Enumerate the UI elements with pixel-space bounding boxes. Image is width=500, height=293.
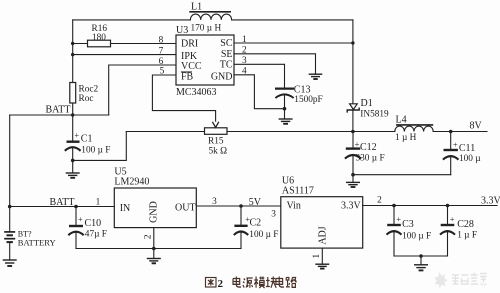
svg-text:C28: C28 [457, 219, 474, 230]
node junction IPK line [71, 53, 74, 56]
svg-text:IN5819: IN5819 [360, 109, 389, 119]
模 [254, 277, 265, 289]
svg-text:2: 2 [218, 278, 224, 290]
node BATT [46, 105, 75, 117]
ground below battery [3, 260, 17, 266]
svg-text:100 µ F: 100 µ F [249, 230, 278, 240]
node junction output ground [419, 254, 423, 258]
diode D1 IN5819 [347, 20, 389, 132]
svg-text:R15: R15 [208, 137, 224, 147]
svg-text:Roc2: Roc2 [79, 85, 99, 95]
node junction D1 bottom [351, 130, 355, 134]
svg-text:GND: GND [149, 201, 160, 223]
svg-text:ADJ: ADJ [317, 226, 328, 244]
inductor L4 [395, 115, 433, 143]
wire rail L4 to 8V [433, 131, 487, 133]
wire ground bus C10 to C2 [76, 248, 241, 250]
wire C12 to C11 bottom [353, 174, 451, 176]
capacitor C28 [440, 204, 477, 256]
op-amp U6 AS1117 [281, 176, 363, 249]
ground below U6 [315, 264, 329, 268]
svg-text:1 µ H: 1 µ H [395, 133, 417, 143]
svg-text:D1: D1 [361, 98, 373, 109]
路 [286, 278, 297, 288]
svg-text:C10: C10 [85, 218, 102, 229]
svg-text:AS1117: AS1117 [282, 186, 314, 197]
wire pin3 TC to C13 [234, 64, 285, 87]
ground below C1 [66, 173, 80, 178]
wire pin4 GND bend to C13 bottom [234, 75, 285, 109]
wire pin6 VCC to BATT [109, 65, 176, 115]
svg-text:47µ F: 47µ F [85, 230, 107, 240]
capacitor C2 [234, 204, 279, 248]
svg-text:5k Ω: 5k Ω [209, 147, 228, 157]
svg-text:FB: FB [181, 71, 194, 82]
svg-text:C12: C12 [360, 142, 377, 153]
wire rail R15 to L4 [227, 131, 395, 133]
svg-text:+: + [450, 214, 455, 224]
svg-text:U3: U3 [176, 25, 188, 36]
svg-text:3.3V: 3.3V [481, 196, 500, 207]
capacitor C11 [443, 132, 481, 175]
ground SE [309, 74, 323, 79]
svg-text:+: + [78, 214, 83, 224]
电 [276, 277, 284, 288]
wire U6 out 3.3V rail [363, 205, 498, 207]
svg-text:+: + [74, 130, 79, 140]
ground below U5 [147, 259, 161, 264]
node junction GND bus [152, 247, 156, 251]
svg-text:+: + [396, 214, 401, 224]
svg-text:MC34063: MC34063 [176, 87, 217, 98]
battery BT? [4, 115, 55, 260]
wire BATT to LM2940 [10, 206, 115, 208]
svg-text:C2: C2 [250, 217, 262, 228]
svg-text:170 µ H: 170 µ H [191, 24, 222, 34]
capacitor C1 [65, 130, 111, 173]
node junction battery branch [8, 205, 12, 209]
svg-text:IPK: IPK [181, 51, 198, 62]
wire U6 ADJ pin [321, 248, 323, 264]
svg-text:5V: 5V [249, 197, 262, 208]
watermark [434, 272, 487, 289]
wire rail bend down to C1 bottom [73, 132, 127, 161]
svg-text:GND: GND [211, 71, 233, 82]
svg-text:7: 7 [159, 46, 164, 56]
svg-text:C13: C13 [294, 84, 311, 95]
svg-text:C11: C11 [459, 143, 475, 154]
wire pin5 FB to R15 wiper [152, 75, 215, 122]
wire output rail left section to R15 [126, 131, 204, 133]
wire C3 to C28 bottom [394, 255, 448, 257]
svg-text:OUT: OUT [175, 203, 196, 214]
wire left vertical input [72, 20, 74, 141]
svg-text:TC: TC [220, 60, 233, 71]
svg-text:1: 1 [312, 254, 322, 259]
svg-text:100 µ F: 100 µ F [81, 146, 110, 156]
wire top rail from left vertical to L1 [73, 19, 191, 21]
node junction R16 line [71, 42, 74, 45]
图 [206, 278, 217, 288]
wire pin7 IPK [73, 54, 176, 56]
svg-text:1500pF: 1500pF [294, 95, 322, 105]
电 [233, 277, 241, 288]
capacitor C10 [68, 205, 107, 249]
op-amp U5 LM2940 [114, 167, 196, 228]
node junction C13 bottom [283, 107, 287, 111]
svg-text:BATT: BATT [50, 197, 75, 208]
svg-text:2: 2 [377, 196, 382, 206]
capacitor C3 [387, 204, 432, 256]
ground below C3/C28 [414, 256, 428, 270]
svg-text:SE: SE [221, 49, 233, 60]
node junction pin1/D1 [351, 41, 354, 44]
svg-text:SC: SC [220, 38, 233, 49]
svg-text:IN: IN [120, 203, 131, 214]
源 [243, 278, 253, 288]
svg-text:L1: L1 [191, 2, 202, 13]
svg-text:100 µ: 100 µ [459, 154, 481, 164]
caption 图2 电源模块电路 [206, 277, 297, 291]
svg-text:DRI: DRI [181, 39, 198, 50]
capacitor C13 [275, 84, 323, 119]
potentiometer R15 [205, 122, 228, 157]
resistor R16 [73, 24, 176, 47]
svg-text:6: 6 [159, 57, 164, 67]
resistor Roc2 [70, 83, 99, 105]
svg-text:2: 2 [144, 234, 154, 239]
svg-text:BATTERY: BATTERY [18, 238, 56, 248]
svg-text:BATT: BATT [46, 105, 71, 116]
svg-text:+: + [453, 140, 458, 150]
svg-text:8V: 8V [470, 121, 483, 132]
svg-text:C3: C3 [402, 219, 414, 230]
capacitor C12 [345, 131, 385, 182]
wire top rail from L1 to D1 branch [232, 19, 353, 21]
ground below C13 [279, 119, 293, 124]
svg-text:LM2940: LM2940 [114, 177, 149, 188]
svg-text:1: 1 [96, 197, 101, 207]
ground below C12 [346, 182, 360, 187]
svg-text:3: 3 [271, 210, 276, 220]
node junction C12 bottom [351, 173, 355, 177]
svg-text:3.3V: 3.3V [341, 201, 362, 212]
wire U5 OUT to U6 Vin [196, 205, 280, 207]
wire pin1 SC to D1 [234, 42, 353, 44]
块 [266, 277, 276, 288]
inductor L1 [189, 2, 231, 34]
svg-text:100 µ F: 100 µ F [402, 231, 431, 241]
svg-text:Vin: Vin [287, 201, 301, 212]
svg-text:C1: C1 [81, 133, 93, 144]
svg-text:3: 3 [212, 197, 217, 207]
svg-text:8: 8 [159, 35, 164, 45]
svg-text:L4: L4 [396, 115, 407, 126]
svg-text:1 µ F: 1 µ F [457, 231, 477, 241]
wire BATT horizontal [10, 114, 109, 116]
wire pin2 SE to ground [234, 54, 316, 74]
svg-text:5: 5 [160, 67, 165, 77]
node junction L4/C11 [449, 130, 453, 134]
op-amp U3 MC34063 [176, 25, 234, 98]
node junction C1 bottom [71, 159, 75, 163]
wire U5 GND pin [153, 228, 155, 259]
svg-text:Roc: Roc [79, 94, 94, 104]
svg-text:330 µ F: 330 µ F [356, 153, 385, 163]
